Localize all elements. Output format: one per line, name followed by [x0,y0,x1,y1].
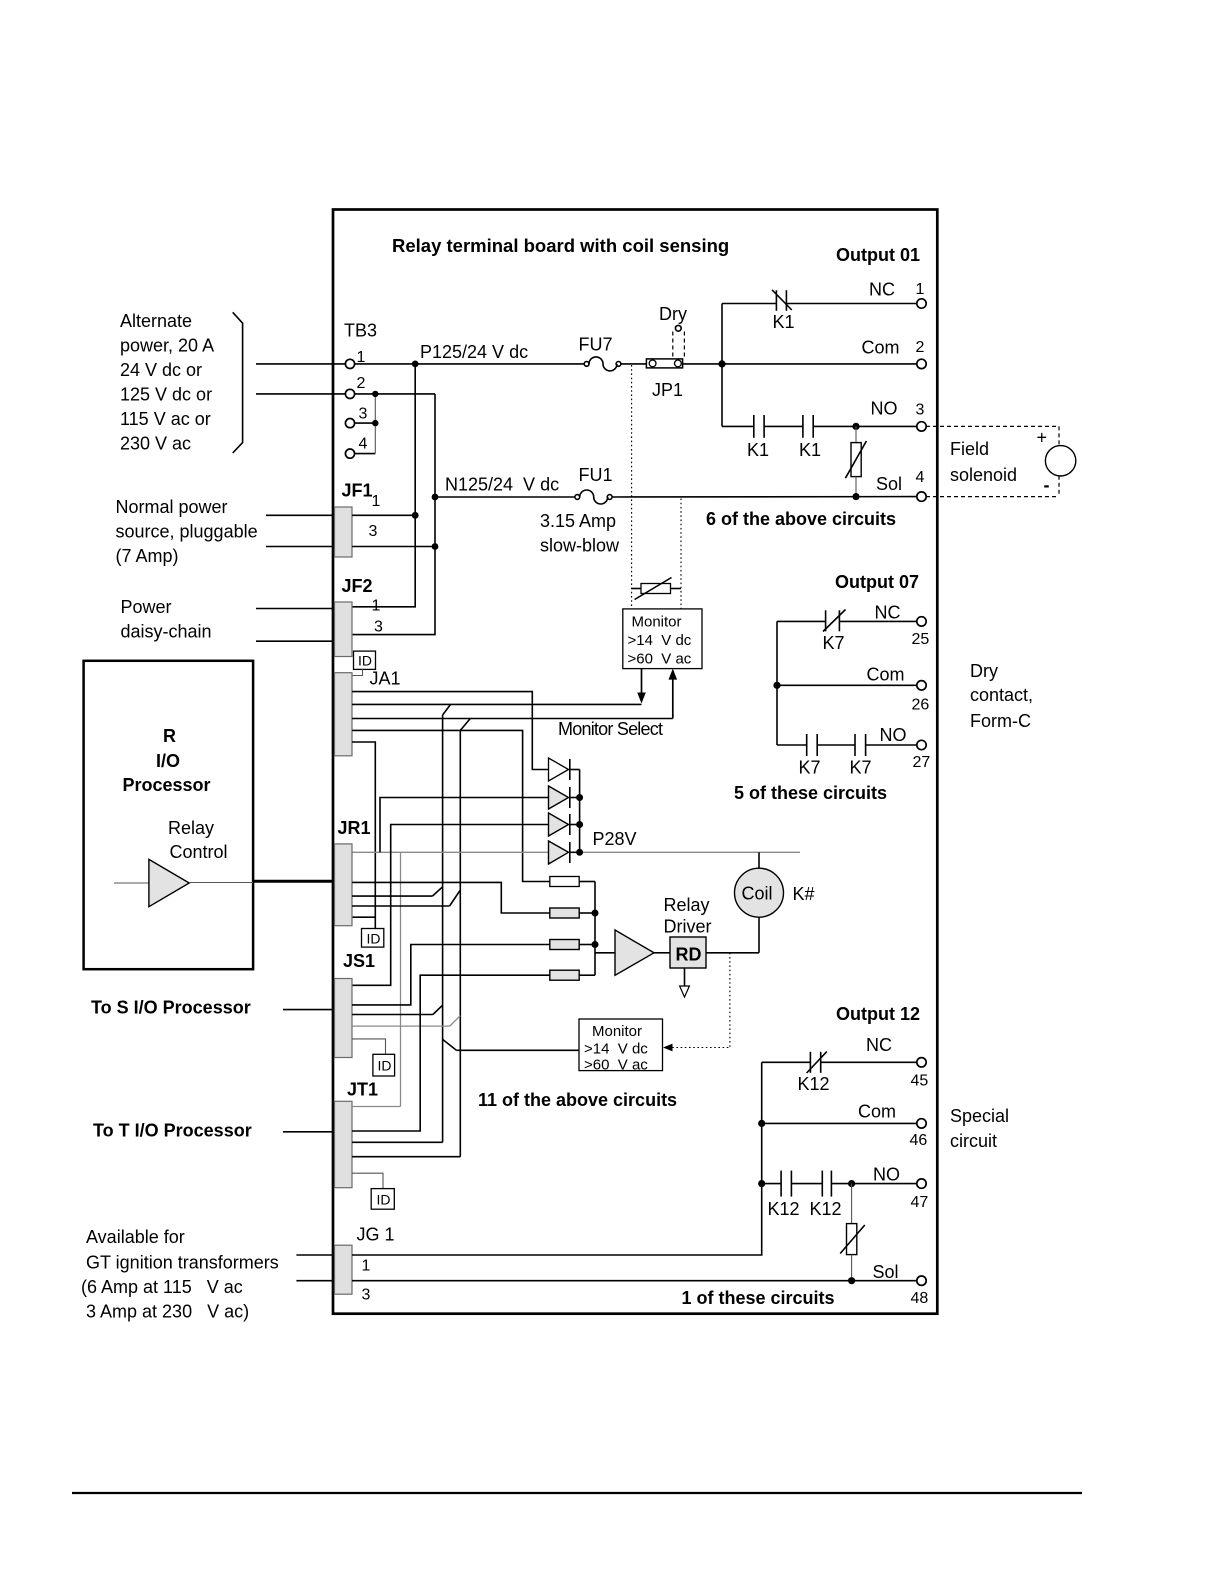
wire: NC row output 01 [722,303,776,305]
svg-text:Normal power: Normal power [116,497,228,517]
svg-text:2: 2 [357,375,366,392]
svg-text:Field: Field [950,439,989,459]
wire: JG1-3 Sol row [352,1280,917,1282]
monitor block 2 [579,1019,663,1074]
arrow: JA1 wire up into monitor1 [669,669,678,719]
diode D3 [549,813,580,836]
svg-text:P125/24 V dc: P125/24 V dc [420,342,528,362]
wire: JG1-1 to output 12 branch [352,1062,762,1255]
svg-text:Monitor Select: Monitor Select [558,719,663,739]
diode D1 [549,758,580,781]
svg-text:26: 26 [912,697,930,714]
svg-text:circuit: circuit [950,1131,997,1151]
net P28V branch down to JT1 (grey) [400,852,402,1106]
svg-text:K12: K12 [798,1074,830,1094]
wire: JA1 pin to diode 1 [352,692,549,770]
svg-text:NC: NC [866,1035,892,1055]
note: field solenoid [950,439,1017,485]
jog: bus V2 to JA1 wire [460,719,470,731]
node: TB3-2 tie [372,391,378,397]
wire: TB3 2-3-4 tie [374,394,376,454]
svg-text:JP1: JP1 [652,380,683,400]
node: MOV to N wire [852,493,859,500]
dashed link: Sol terminal to field solenoid - [926,496,1059,498]
svg-text:Processor: Processor [123,775,211,795]
wire: NO row output 07 [777,744,807,746]
connector JS1 [335,951,376,1058]
svg-text:JA1: JA1 [370,669,401,689]
wire: NC row output 12 [762,1061,811,1063]
svg-text:3: 3 [362,1287,371,1304]
svg-text:K7: K7 [823,633,845,653]
note: special circuit [950,1106,1009,1151]
terminal 27 [917,740,926,749]
svg-text:Com: Com [862,338,900,358]
wire: RD output to coil [706,952,759,954]
node: P bus tap [412,361,419,368]
wire: NC row output 07 [777,620,826,622]
ID chip above JT1 [373,1054,395,1076]
svg-text:Sol: Sol [876,474,902,494]
monitor select tap from N (dotted) [680,499,682,609]
svg-text:115 V ac or: 115 V ac or [120,409,211,429]
svg-text:Special: Special [950,1106,1009,1126]
wire: JS1 pin to ID chip JT1 [352,1039,386,1054]
contact K7 NO b [850,734,872,778]
wire: output 01 branch vertical [721,304,723,427]
jog: bus V1 to JA1 wire [443,704,451,715]
svg-text:4: 4 [916,469,925,486]
svg-text:3: 3 [369,523,378,540]
resistor R3 [550,940,595,950]
node: D3 cathode [576,821,583,828]
wire: JR1 pin to bus V2 [352,891,460,906]
field solenoid symbol [1045,446,1075,476]
svg-text:45: 45 [911,1073,929,1090]
wire: JF1-1 to P bus [352,514,415,516]
svg-text:>14 V dc: >14 V dc [584,1041,648,1058]
svg-text:(7 Amp): (7 Amp) [116,546,179,566]
node: R3 out [592,941,599,948]
svg-text:27: 27 [913,754,931,771]
wire: JS1 pin to diode 3 [352,825,549,986]
wire: bus to driver input [595,952,615,954]
svg-text:>60 V ac: >60 V ac [628,651,692,668]
terminal 25 [917,617,926,626]
svg-text:JF2: JF2 [342,576,373,596]
svg-text:P28V: P28V [593,829,637,849]
svg-text:ID: ID [367,931,381,947]
svg-text:3 Amp at 230 V ac): 3 Amp at 230 V ac) [86,1302,249,1322]
svg-text:Sol: Sol [873,1262,899,1282]
diode D4 [549,841,580,864]
note: alternate power options [120,311,214,454]
bus V1 vertical [442,715,444,1142]
svg-text:-: - [1044,475,1050,495]
wire: TB3-3 stub [355,422,376,424]
wire: to JS1 from S I/O [283,1009,335,1011]
note: available for GT ignition transformers [81,1227,279,1322]
wire: normal power to JF1-1 [266,514,334,516]
R I/O Processor block [84,661,254,969]
wire: daisy-chain to JF2-1 [256,608,334,610]
svg-text:Driver: Driver [664,917,712,937]
svg-text:4: 4 [359,436,368,453]
wire: JT1 pin to ID chip [352,1173,383,1188]
svg-text:>14 V dc: >14 V dc [628,632,692,649]
wire: buffer to RD [654,952,670,954]
node: MOV 12 to Sol wire [848,1277,855,1284]
svg-text:source, pluggable: source, pluggable [116,522,258,542]
note: dry contact form-C [970,661,1033,731]
svg-text:230 V ac: 230 V ac [120,434,191,454]
svg-text:46: 46 [910,1132,928,1149]
contact K12 NO a [768,1171,800,1219]
svg-text:125 V dc or: 125 V dc or [120,385,212,405]
TB3 terminal 3 [345,419,354,428]
ID chip for JA1 [352,651,376,675]
contact K1 NC [772,290,795,332]
arrow: monitor1 output down to JA1 wire [637,669,646,704]
MOV varistor output 01 [845,426,866,496]
resistor R1 [550,877,595,887]
svg-text:Form-C: Form-C [970,711,1031,731]
svg-text:Relay terminal board with coil: Relay terminal board with coil sensing [392,235,729,256]
node: NO to MOV 12 [848,1180,855,1187]
svg-text:5 of these circuits: 5 of these circuits [734,783,887,803]
svg-text:Output 07: Output 07 [835,572,919,592]
RD ground stub open arrow [680,968,690,997]
node: TB3-3 tie [372,420,378,426]
footer rule [72,1492,1082,1494]
svg-text:Monitor: Monitor [632,614,682,631]
wire: bus V1 to monitor2 [443,1039,579,1050]
svg-text:Power: Power [121,597,172,617]
svg-text:1: 1 [362,1258,371,1275]
svg-text:Alternate: Alternate [120,311,192,331]
wire: relay control to JR1 [253,880,334,883]
svg-text:daisy-chain: daisy-chain [121,622,212,642]
RD block [670,937,706,968]
svg-text:25: 25 [912,631,930,648]
svg-text:K#: K# [793,884,815,904]
wire: Com row output 07 [777,684,917,686]
wire: JS1 pin to bus V2 (grey) [352,1016,460,1026]
svg-text:Dry: Dry [970,661,998,681]
wire: JA1 pin to monitor1 up-arrow [352,718,673,720]
relay coil K# [735,852,815,953]
wire P125/24: TB3-1 to FU7 [355,363,585,365]
dashed link: NO terminal to field solenoid + [926,425,1059,427]
wire: JP1 to Com node [683,363,722,365]
node: output 12 common [758,1120,765,1127]
svg-text:6 of the above circuits: 6 of the above circuits [706,509,896,529]
svg-text:ID: ID [378,1058,392,1074]
svg-text:K1: K1 [799,440,821,460]
MOV varistor output 12 [840,1184,865,1281]
svg-text:Coil: Coil [742,884,773,904]
monitor block 1 [623,609,702,669]
wire: JR1 pin to resistor row 2 [352,882,550,913]
svg-text:K1: K1 [773,312,795,332]
wire: JA1 pin to resistor row 1 [352,730,550,881]
contact K1 NO b [799,415,821,460]
wire N125/24: FU1 to Sol terminal [612,496,917,498]
TB3 terminal 2 [345,389,354,398]
resistor R2 [550,908,595,918]
note: power daisy-chain [121,597,212,642]
svg-text:R: R [163,726,176,746]
svg-text:NO: NO [873,1165,900,1185]
dashed link: solenoid + lead [1058,426,1060,446]
note: normal power source [116,497,258,566]
svg-text:JG 1: JG 1 [357,1225,395,1245]
svg-text:11 of the above circuits: 11 of the above circuits [478,1090,677,1110]
wire: NO row output 01 [722,425,754,427]
svg-text:(6 Amp at 115 V ac: (6 Amp at 115 V ac [81,1277,243,1297]
dashed link: solenoid - lead [1058,476,1060,497]
svg-text:Relay: Relay [168,818,214,838]
svg-text:RD: RD [676,945,702,965]
dotted feedback: RD output to monitor2 [663,953,730,1052]
svg-text:1: 1 [372,493,381,510]
wire: Com row output 01 [722,363,917,365]
svg-text:3.15 Amp: 3.15 Amp [540,511,616,531]
wire: JA1 pin to JR1 tie [352,742,375,929]
svg-text:FU1: FU1 [579,465,613,485]
contact K1 NO a [747,415,769,460]
contact K7 NO a [799,734,821,778]
svg-text:3: 3 [374,619,383,636]
svg-text:FU7: FU7 [579,335,613,355]
svg-text:3: 3 [359,406,368,423]
wire: NO row output 12 [762,1183,781,1185]
board outline: relay terminal board [333,210,937,1314]
fuse FU1 [575,465,613,504]
fuse FU7 [579,335,621,371]
svg-text:Com: Com [858,1102,896,1122]
relay driver buffer [615,895,712,975]
wire: GT stub to JG1-1 [296,1254,334,1256]
wire: JF1-3 to N bus [352,546,435,548]
svg-text:Available for: Available for [86,1227,185,1247]
svg-text:solenoid: solenoid [950,465,1017,485]
svg-text:Relay: Relay [664,895,710,915]
ID chip for JS1 [362,929,384,948]
connector JA1 [335,669,401,756]
node: N bus start [432,494,439,501]
svg-text:JF1: JF1 [342,481,373,501]
svg-text:3: 3 [916,402,925,419]
svg-text:ID: ID [358,653,372,669]
svg-text:GT ignition transformers: GT ignition transformers [86,1253,279,1273]
brace for alternate power [233,312,243,453]
svg-text:K1: K1 [747,440,769,460]
connector JG1 [335,1225,395,1304]
svg-text:contact,: contact, [970,685,1033,705]
svg-text:K12: K12 [768,1199,800,1219]
wire: output 07 branch vertical [776,621,778,745]
MOV varistor monitor input [632,578,681,600]
wire: JT1 pin to P28V branch (grey) [352,1106,401,1108]
svg-text:NC: NC [869,280,895,300]
node: output 07 common [773,682,780,689]
wire: daisy-chain to JF2-3 [256,640,334,642]
svg-text:47: 47 [911,1194,929,1211]
wire: JS1 pin to resistor row 3 [352,945,550,1005]
node: D4 cathode / P28V [576,849,583,856]
diode D2 [549,786,580,809]
wire: TB3-4 stub [355,453,376,455]
ID chip below JT1 [371,1189,394,1210]
wire: JR1 pin to bus V1 [352,887,443,896]
svg-text:+: + [1037,428,1048,448]
svg-text:>60 V ac: >60 V ac [584,1057,648,1074]
terminal 48 [917,1276,926,1285]
svg-text:K7: K7 [850,758,872,778]
connector JR1 [335,818,371,926]
resistor output bus [594,882,596,976]
svg-text:JR1: JR1 [338,818,371,838]
buffer amp inside R I/O Processor [114,859,253,906]
svg-text:JS1: JS1 [343,951,375,971]
svg-text:I/O: I/O [156,751,180,771]
svg-text:24 V dc or: 24 V dc or [120,360,202,380]
svg-text:Dry: Dry [659,304,687,324]
wire: JT1 pin to bus V2 end [352,1156,460,1158]
node: output 12 NO branch [758,1180,765,1187]
TB3 terminal 1 [345,359,354,368]
svg-text:NO: NO [871,399,898,419]
contact K12 NC [798,1052,830,1094]
node: JF1-3 on N bus [432,543,439,550]
svg-text:48: 48 [911,1290,929,1307]
jumper JP1 [646,359,683,400]
wire: JT1 pin to resistor row 4 [352,975,550,1131]
wire: alt bus vertical TB3-2 to JF2-3 [352,394,435,635]
svg-text:2: 2 [916,339,925,356]
node: D2 cathode [576,794,583,801]
terminal 26 [917,681,926,690]
wire: GT stub to JG1-3 [296,1280,334,1282]
svg-text:Monitor: Monitor [592,1023,642,1040]
net P28V row (grey) [352,851,800,853]
svg-text:ID: ID [377,1192,391,1208]
node: output 01 common branch [718,360,725,367]
svg-text:Output 01: Output 01 [836,245,920,265]
svg-text:1 of these circuits: 1 of these circuits [682,1288,835,1308]
terminal 45 [917,1058,926,1067]
svg-text:1: 1 [372,598,381,615]
connector JT1 [335,1080,379,1188]
wire: JA1 pin to monitor1 down-arrow [352,703,642,705]
svg-text:To S I/O Processor: To S I/O Processor [91,998,251,1018]
svg-text:Output 12: Output 12 [836,1004,920,1024]
svg-text:Com: Com [867,665,905,685]
wire: JT1 pin to bus V1 end [352,1141,443,1143]
svg-text:Control: Control [170,842,228,862]
svg-text:1: 1 [916,281,925,298]
wire: to JT1 from T I/O [283,1131,335,1133]
svg-text:power, 20 A: power, 20 A [120,336,214,356]
svg-text:To T I/O Processor: To T I/O Processor [93,1121,252,1141]
wire: alternate power to TB3-1 [256,363,345,365]
wire: FU7 to JP1 [621,363,647,365]
terminal 47 [917,1179,926,1188]
svg-text:NO: NO [880,725,907,745]
wire N125/24: to FU1 [435,496,575,498]
wire: JS1 pin to bus V1 [352,1005,443,1014]
wire: alternate power to TB3-2 [256,393,345,395]
monitor select tap from P (dash-dot) [631,365,633,609]
connector JF2 [335,576,384,657]
svg-text:K7: K7 [799,758,821,778]
diode cathode bus [579,770,581,853]
bus V2 vertical [459,730,461,1156]
wire: Com row output 12 [762,1122,917,1124]
connector JF1 [335,481,381,558]
svg-text:NC: NC [875,603,901,623]
TB3 terminal 4 [345,449,354,458]
wire: TB3-2 jumper bus [355,393,435,395]
svg-text:TB3: TB3 [344,321,377,341]
svg-text:slow-blow: slow-blow [540,536,620,556]
node: R2 out [592,910,599,917]
terminal 46 [917,1119,926,1128]
contact K12 NO b [810,1171,842,1219]
dry jumper position marker [659,304,687,359]
wire: diode 2 branch [380,798,549,853]
wire: normal power to JF1-3 [266,546,334,548]
svg-text:JT1: JT1 [347,1080,378,1100]
resistor R4 [550,970,595,980]
svg-text:N125/24 V dc: N125/24 V dc [445,475,559,495]
wire: P bus vertical to JF1-1/JF2-1 [352,364,415,607]
node: NO to MOV [852,423,859,430]
node: JF1-1 on P bus [412,512,419,519]
contact K7 NC [823,610,846,654]
svg-text:K12: K12 [810,1199,842,1219]
